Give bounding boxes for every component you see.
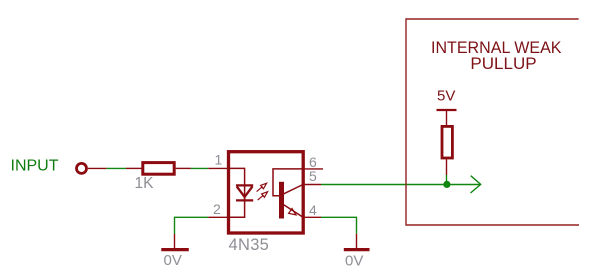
- svg-text:1K: 1K: [135, 175, 155, 192]
- wire net R1 to opto pin 1: [191, 167, 208, 169]
- wire net opto pin 2 to ground: [175, 217, 209, 234]
- pullup resistor lower stub: [446, 159, 448, 175]
- U1 internal wire LED cathode to pin 2: [229, 197, 245, 217]
- optocoupler U1 pin 4 stub: [303, 216, 321, 218]
- ground GND1 symbol: [161, 248, 189, 251]
- supply 5V pin stub: [446, 110, 448, 125]
- wire net INPUT to R1: [106, 167, 126, 169]
- wire net output (pin 5 to arrow): [321, 184, 481, 186]
- phototransistor Q1 emitter arrowhead: [289, 209, 296, 215]
- svg-text:5V: 5V: [437, 87, 455, 104]
- supply 5V T-bar symbol: [437, 109, 457, 111]
- ground GND2 pin stub: [356, 234, 358, 249]
- svg-text:5: 5: [309, 168, 317, 184]
- junction dot: [443, 181, 450, 188]
- U1 internal wire pin1 to LED anode: [229, 168, 245, 200]
- resistor R1 pin 1 stub: [126, 167, 142, 169]
- internal pullup box: [406, 19, 579, 225]
- ground GND2 symbol: [344, 248, 370, 251]
- phototransistor Q1 base bar: [279, 182, 284, 219]
- wire net opto pin 4 to ground: [321, 217, 357, 234]
- svg-text:PULLUP: PULLUP: [470, 54, 536, 73]
- pullup resistor body: [442, 126, 452, 158]
- phototransistor Q1 collector: [284, 185, 304, 194]
- optocoupler U1 body box: [229, 152, 304, 233]
- optocoupler U1 pin 2 stub: [208, 216, 228, 218]
- wire pullup resistor to junction: [446, 175, 448, 184]
- svg-text:1: 1: [215, 152, 223, 168]
- light arrow 1: [257, 183, 267, 191]
- optocoupler U1 pin 1 stub: [208, 167, 228, 169]
- resistor R1 body: [143, 163, 174, 175]
- LED D1 cathode bar: [236, 199, 253, 201]
- svg-text:0V: 0V: [164, 252, 182, 269]
- light arrow 2: [258, 192, 268, 200]
- LED D1 triangle: [236, 185, 253, 197]
- svg-text:4: 4: [309, 202, 317, 218]
- signal arrow head: [471, 176, 481, 193]
- terminal INPUT pad: [77, 163, 87, 173]
- optocoupler U1 pin 5 stub: [303, 184, 321, 186]
- ground GND1 pin stub: [174, 234, 176, 248]
- svg-text:2: 2: [213, 201, 221, 217]
- optocoupler U1 pin 6 stub: [303, 168, 323, 170]
- U1 internal wire pin6 to base: [273, 169, 303, 196]
- svg-text:0V: 0V: [345, 253, 363, 270]
- terminal pin stub: [88, 167, 106, 169]
- svg-text:INPUT: INPUT: [11, 158, 59, 175]
- resistor R1 pin 2 stub: [176, 167, 191, 169]
- phototransistor Q1 emitter: [284, 205, 303, 217]
- svg-text:4N35: 4N35: [229, 236, 270, 254]
